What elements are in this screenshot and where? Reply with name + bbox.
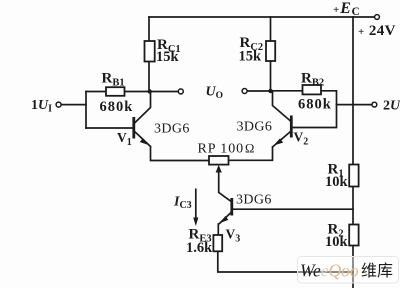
node V1 collector junction dot	[148, 89, 152, 93]
wire +24V rail upper	[352, 17, 354, 165]
svg-text:3DG6: 3DG6	[236, 193, 272, 208]
wire node V1 collector to UO left terminal	[152, 91, 178, 93]
wire RP right to V2 emitter	[229, 147, 273, 160]
terminal +EC	[375, 15, 380, 20]
svg-text:680k: 680k	[100, 99, 134, 115]
svg-text:10k: 10k	[325, 234, 349, 250]
wire V3 emitter to RE3	[217, 224, 219, 235]
potentiometer RP wiper arrowhead	[216, 165, 222, 173]
transistor V1	[134, 92, 151, 147]
wire RC1 top lead	[148, 17, 150, 41]
potentiometer RP body	[209, 156, 229, 165]
wire RC2 bottom lead	[270, 61, 272, 91]
resistor RB1	[106, 87, 125, 96]
wire top supply rail	[149, 16, 375, 18]
wire RP wiper down to V3 collector	[219, 168, 232, 202]
wire RE3 bottom and ground return rail	[218, 251, 353, 272]
resistor RC1	[145, 41, 155, 62]
wire RB2 left lead	[271, 90, 303, 92]
svg-text:15k: 15k	[239, 49, 263, 65]
resistor R1	[349, 165, 358, 187]
svg-text:3DG6: 3DG6	[237, 120, 273, 135]
node V2 collector junction dot	[268, 89, 272, 93]
wire RB1 right lead	[125, 91, 150, 93]
terminal 2UI	[372, 102, 377, 107]
wire RB1 left lead	[86, 91, 106, 93]
wire RC1 bottom lead	[148, 62, 150, 92]
wire V1 base lead	[86, 127, 133, 129]
wire between R1 and R2	[352, 187, 354, 225]
terminal UO left	[178, 89, 183, 94]
wire V1 emitter down to RP	[151, 147, 210, 161]
current arrow IC3	[193, 189, 198, 227]
wire input node vertical	[85, 92, 87, 129]
resistor RC2	[266, 41, 275, 61]
svg-text:3DG6: 3DG6	[154, 122, 190, 137]
wire R2 bottom to page bottom	[352, 246, 354, 288]
resistor RE3	[213, 235, 222, 251]
terminal UO right	[242, 89, 247, 94]
transistor V2	[273, 91, 292, 147]
svg-text:680k: 680k	[298, 97, 332, 113]
transistor V3	[219, 198, 232, 224]
wire RC2 top lead	[270, 17, 272, 41]
svg-text:1.6k: 1.6k	[186, 240, 213, 256]
wire 2UI tap	[337, 104, 373, 106]
wire RB2 right lead and down to V2 base	[292, 91, 337, 128]
terminal input 1UI	[56, 102, 61, 107]
wire V3 base to divider junction	[232, 208, 353, 210]
wire input 1UI	[61, 104, 86, 106]
svg-text:2UI: 2UI	[383, 99, 400, 116]
resistor R2	[349, 225, 358, 246]
svg-text:15k: 15k	[156, 49, 180, 65]
svg-text:WeeQoo: WeeQoo	[300, 261, 359, 281]
watermark box	[298, 257, 399, 284]
svg-text:RP 100Ω: RP 100Ω	[198, 142, 256, 157]
svg-text:10k: 10k	[325, 174, 349, 190]
resistor RB2	[303, 85, 322, 94]
svg-text:+ 24V: + 24V	[358, 23, 396, 39]
wire UO right terminal to V2 collector node	[247, 90, 271, 92]
svg-text:维库: 维库	[361, 262, 393, 280]
